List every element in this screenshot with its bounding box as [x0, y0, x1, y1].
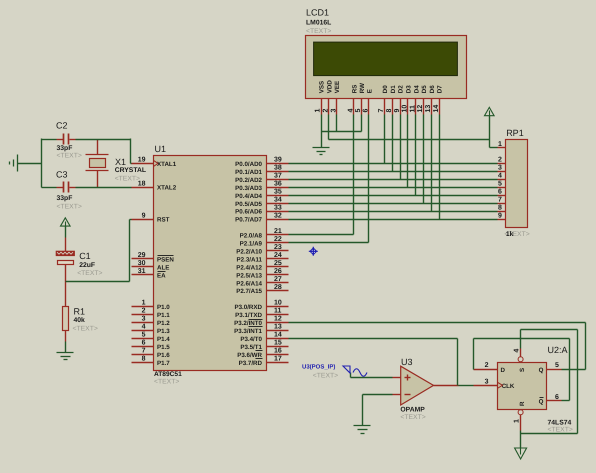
svg-text:P3.1/TXD: P3.1/TXD [235, 312, 262, 319]
svg-text:6: 6 [498, 188, 502, 195]
svg-text:6: 6 [363, 109, 370, 113]
svg-text:4: 4 [348, 109, 355, 113]
svg-text:40k: 40k [74, 317, 86, 324]
svg-text:3: 3 [485, 378, 489, 385]
ground arrow (U2:A reset) [515, 448, 527, 459]
svg-text:VDD: VDD [326, 80, 333, 94]
svg-text:P3.5/T1: P3.5/T1 [240, 344, 262, 351]
svg-text:D5: D5 [421, 85, 428, 93]
wire: data bus P0.7 / D7 / RP1 pin9 [289, 115, 498, 220]
svg-text:14: 14 [433, 105, 440, 113]
svg-text:P2.5/A13: P2.5/A13 [236, 272, 262, 279]
svg-text:1: 1 [498, 141, 502, 148]
svg-text:7: 7 [498, 196, 502, 203]
svg-text:R1: R1 [74, 307, 86, 317]
svg-text:P2.2/A10: P2.2/A10 [236, 248, 262, 255]
svg-text:13: 13 [274, 324, 282, 331]
svg-text:<TEXT>: <TEXT> [306, 28, 331, 35]
svg-text:8: 8 [386, 109, 393, 113]
svg-text:C2: C2 [56, 121, 68, 131]
generator U3(POS_IP) sine marker [302, 364, 367, 380]
wire: VSS/VEE/RW ground tie [322, 115, 362, 132]
svg-text:XTAL2: XTAL2 [157, 185, 177, 192]
wire: R1 to ground [65, 342, 67, 353]
svg-text:37: 37 [274, 173, 282, 180]
svg-text:34: 34 [274, 196, 282, 203]
ground (R1) [57, 353, 74, 360]
svg-text:Q: Q [539, 367, 544, 374]
svg-text:1: 1 [513, 419, 520, 423]
wire: P2.0 to LCD RS [289, 115, 354, 235]
svg-text:P0.1/AD1: P0.1/AD1 [235, 169, 262, 176]
svg-text:32: 32 [274, 212, 282, 219]
svg-text:31: 31 [138, 268, 146, 275]
svg-text:7: 7 [142, 347, 146, 354]
svg-text:C3: C3 [56, 169, 68, 179]
svg-text:AT89C51: AT89C51 [154, 371, 182, 378]
svg-text:26: 26 [274, 268, 282, 275]
svg-text:P3.0/RXD: P3.0/RXD [234, 304, 262, 311]
svg-text:D: D [501, 367, 506, 374]
svg-text:9: 9 [142, 212, 146, 219]
svg-text:1k: 1k [506, 231, 514, 238]
svg-text:5: 5 [142, 332, 146, 339]
svg-text:E: E [367, 89, 374, 93]
ground (op-amp inverting input) [354, 426, 371, 434]
svg-text:PSEN: PSEN [157, 256, 174, 263]
svg-text:D6: D6 [429, 85, 436, 93]
svg-text:X1: X1 [115, 157, 126, 167]
svg-text:P0.4/AD4: P0.4/AD4 [235, 193, 262, 200]
svg-text:<TEXT>: <TEXT> [73, 326, 98, 333]
svg-text:3: 3 [142, 316, 146, 323]
LCD LCD1 LM016L [306, 8, 467, 115]
wire: data bus P0.4 / D4 / RP1 pin6 [289, 115, 498, 196]
svg-text:10: 10 [274, 300, 282, 307]
svg-text:12: 12 [417, 105, 424, 113]
svg-text:11: 11 [409, 105, 416, 113]
svg-text:P3.7/RD: P3.7/RD [239, 360, 263, 367]
svg-text:U1: U1 [155, 144, 167, 154]
op-amp U3 [393, 357, 459, 421]
svg-text:ALE: ALE [157, 264, 169, 271]
svg-text:P0.0/AD0: P0.0/AD0 [235, 161, 262, 168]
svg-text:4: 4 [142, 324, 146, 331]
wire: LCD VSS to ground [321, 115, 323, 148]
wire: C1/R1 node to RST [66, 220, 132, 282]
power +5V arrow (C1) [61, 218, 71, 238]
microcontroller U1 AT89C51 [132, 144, 289, 385]
svg-text:14: 14 [274, 332, 282, 339]
svg-text:D3: D3 [406, 85, 413, 93]
svg-text:<TEXT>: <TEXT> [548, 427, 573, 434]
svg-text:D1: D1 [390, 85, 397, 93]
svg-text:33pF: 33pF [57, 195, 73, 202]
svg-text:39: 39 [274, 157, 282, 164]
svg-text:1: 1 [142, 300, 146, 307]
svg-text:9: 9 [394, 109, 401, 113]
svg-text:P2.6/A14: P2.6/A14 [236, 280, 262, 287]
svg-text:21: 21 [274, 228, 282, 235]
svg-text:P0.6/AD6: P0.6/AD6 [235, 209, 262, 216]
svg-text:S: S [519, 368, 526, 372]
svg-text:D2: D2 [398, 85, 405, 93]
svg-text:36: 36 [274, 180, 282, 187]
wire: S-bar / R / ground net [521, 330, 578, 449]
svg-text:LM016L: LM016L [306, 20, 331, 27]
svg-text:3: 3 [498, 165, 502, 172]
wire: C2 to XTAL1 [76, 139, 132, 164]
svg-text:P1.7: P1.7 [157, 360, 170, 367]
wire: LCD VDD to +5V and RP1 pin1 [329, 115, 498, 148]
wire: data bus P0.6 / D6 / RP1 pin8 [289, 115, 498, 212]
svg-text:27: 27 [274, 276, 282, 283]
svg-text:D0: D0 [382, 85, 389, 93]
svg-text:P2.0/A8: P2.0/A8 [240, 233, 263, 240]
svg-text:38: 38 [274, 165, 282, 172]
svg-text:<TEXT>: <TEXT> [77, 270, 102, 277]
ground (left signal) [10, 155, 18, 172]
svg-text:2: 2 [498, 157, 502, 164]
svg-text:U2:A: U2:A [548, 345, 568, 355]
svg-text:9: 9 [498, 212, 502, 219]
wire: data bus P0.3 / D3 / RP1 pin5 [289, 115, 498, 188]
power +5V arrow (RP1) [485, 107, 495, 139]
svg-text:P2.4/A12: P2.4/A12 [236, 264, 262, 271]
svg-text:Q: Q [539, 399, 544, 406]
svg-text:RW: RW [359, 83, 366, 93]
wire: P3.4 to op-amp output / CLK [289, 339, 474, 386]
svg-text:23: 23 [274, 244, 282, 251]
svg-text:33: 33 [274, 204, 282, 211]
svg-text:19: 19 [138, 157, 146, 164]
svg-text:P3.6/WR: P3.6/WR [237, 352, 262, 359]
svg-text:CLK: CLK [502, 383, 515, 390]
svg-text:P0.7/AD7: P0.7/AD7 [235, 217, 262, 224]
svg-text:35: 35 [274, 188, 282, 195]
svg-text:17: 17 [274, 355, 282, 362]
wire: data bus P0.5 / D5 / RP1 pin7 [289, 115, 498, 204]
svg-text:P3.3/INT1: P3.3/INT1 [234, 328, 262, 335]
svg-text:P2.3/A11: P2.3/A11 [237, 256, 263, 263]
svg-text:16: 16 [274, 347, 282, 354]
svg-text:D4: D4 [413, 85, 420, 93]
svg-text:<TEXT>: <TEXT> [57, 153, 82, 160]
svg-text:3: 3 [330, 109, 337, 113]
svg-text:P2.7/A15: P2.7/A15 [236, 288, 262, 295]
svg-text:2: 2 [323, 109, 330, 113]
svg-text:P1.4: P1.4 [157, 336, 170, 343]
svg-text:8: 8 [498, 204, 502, 211]
svg-text:P1.1: P1.1 [157, 312, 170, 319]
svg-text:<TEXT>: <TEXT> [115, 176, 140, 183]
svg-text:CRYSTAL: CRYSTAL [115, 167, 146, 174]
svg-text:RST: RST [157, 217, 170, 224]
svg-text:<TEXT>: <TEXT> [154, 378, 179, 385]
wire: P3.2 to U2:A Q [289, 323, 586, 370]
svg-text:<TEXT>: <TEXT> [57, 204, 82, 211]
svg-text:22uF: 22uF [79, 262, 95, 269]
svg-text:4: 4 [513, 349, 520, 353]
svg-text:RP1: RP1 [506, 128, 524, 138]
svg-text:6: 6 [142, 339, 146, 346]
wire: data bus P0.2 / D2 / RP1 pin4 [289, 115, 498, 180]
svg-text:P0.5/AD5: P0.5/AD5 [235, 201, 262, 208]
svg-text:<TEXT>: <TEXT> [313, 373, 338, 380]
svg-text:EA: EA [157, 272, 166, 279]
wire: data bus P0.0 / D0 / RP1 pin2 [289, 115, 498, 164]
flip-flop U2:A 74LS74 [474, 345, 573, 434]
svg-text:P3.2/INT0: P3.2/INT0 [234, 320, 262, 327]
svg-text:D7: D7 [437, 85, 444, 93]
svg-text:2: 2 [142, 308, 146, 315]
svg-text:P2.1/A9: P2.1/A9 [240, 241, 263, 248]
svg-text:LCD1: LCD1 [306, 8, 329, 18]
svg-text:P1.3: P1.3 [157, 328, 170, 335]
svg-text:R: R [519, 401, 526, 406]
svg-text:<TEXT>: <TEXT> [400, 414, 425, 421]
wire: data bus P0.1 / D1 / RP1 pin3 [289, 115, 498, 172]
wire: Q-bar to D feedback [474, 339, 570, 401]
svg-text:4: 4 [498, 173, 502, 180]
svg-text:VEE: VEE [334, 81, 341, 93]
svg-text:25: 25 [274, 260, 282, 267]
resistor R1 40k [63, 282, 98, 342]
svg-text:24: 24 [274, 252, 282, 259]
svg-text:VSS: VSS [319, 81, 326, 93]
node marker (blue cross) [309, 247, 318, 256]
svg-text:P1.0: P1.0 [157, 304, 170, 311]
svg-text:10: 10 [402, 105, 409, 113]
crystal X1 [86, 140, 147, 188]
svg-text:P1.2: P1.2 [157, 320, 170, 327]
wire: op-amp plus input from source [351, 373, 393, 378]
svg-text:P0.2/AD2: P0.2/AD2 [235, 177, 262, 184]
svg-text:8: 8 [142, 355, 146, 362]
svg-text:15: 15 [274, 339, 282, 346]
svg-text:U3: U3 [401, 357, 413, 367]
svg-text:5: 5 [498, 180, 502, 187]
wire: left gnd to C2/C3 rail [18, 139, 57, 188]
svg-text:7: 7 [378, 109, 385, 113]
svg-text:13: 13 [425, 105, 432, 113]
wire: P2.1 to LCD E [289, 115, 369, 243]
resistor pack RP1 [498, 128, 530, 238]
svg-text:30: 30 [138, 260, 146, 267]
capacitor C2 33pF [56, 121, 82, 160]
svg-text:22: 22 [274, 236, 282, 243]
svg-text:2: 2 [485, 362, 489, 369]
svg-text:XTAL1: XTAL1 [157, 161, 177, 168]
ground (LCD VSS) [313, 148, 330, 155]
svg-text:P3.4/T0: P3.4/T0 [240, 336, 262, 343]
svg-text:74LS74: 74LS74 [548, 420, 572, 427]
svg-text:29: 29 [138, 252, 146, 259]
svg-text:P0.3/AD3: P0.3/AD3 [235, 185, 262, 192]
svg-text:RS: RS [351, 85, 358, 94]
wire: op-amp minus input to ground [363, 395, 393, 426]
svg-text:OPAMP: OPAMP [400, 406, 425, 413]
capacitor C3 33pF [56, 169, 82, 210]
capacitor C1 22uF [56, 238, 102, 282]
svg-text:P1.6: P1.6 [157, 352, 170, 359]
svg-text:5: 5 [555, 362, 559, 369]
svg-text:6: 6 [555, 394, 559, 401]
svg-text:U3(POS_IP): U3(POS_IP) [302, 364, 335, 371]
wire: C3 to XTAL2 [76, 187, 132, 189]
svg-text:5: 5 [355, 109, 362, 113]
svg-text:C1: C1 [79, 251, 91, 261]
svg-text:33pF: 33pF [57, 145, 73, 152]
svg-text:28: 28 [274, 284, 282, 291]
svg-text:P1.5: P1.5 [157, 344, 170, 351]
svg-text:12: 12 [274, 316, 282, 323]
svg-text:11: 11 [274, 308, 282, 315]
svg-text:1: 1 [315, 109, 322, 113]
